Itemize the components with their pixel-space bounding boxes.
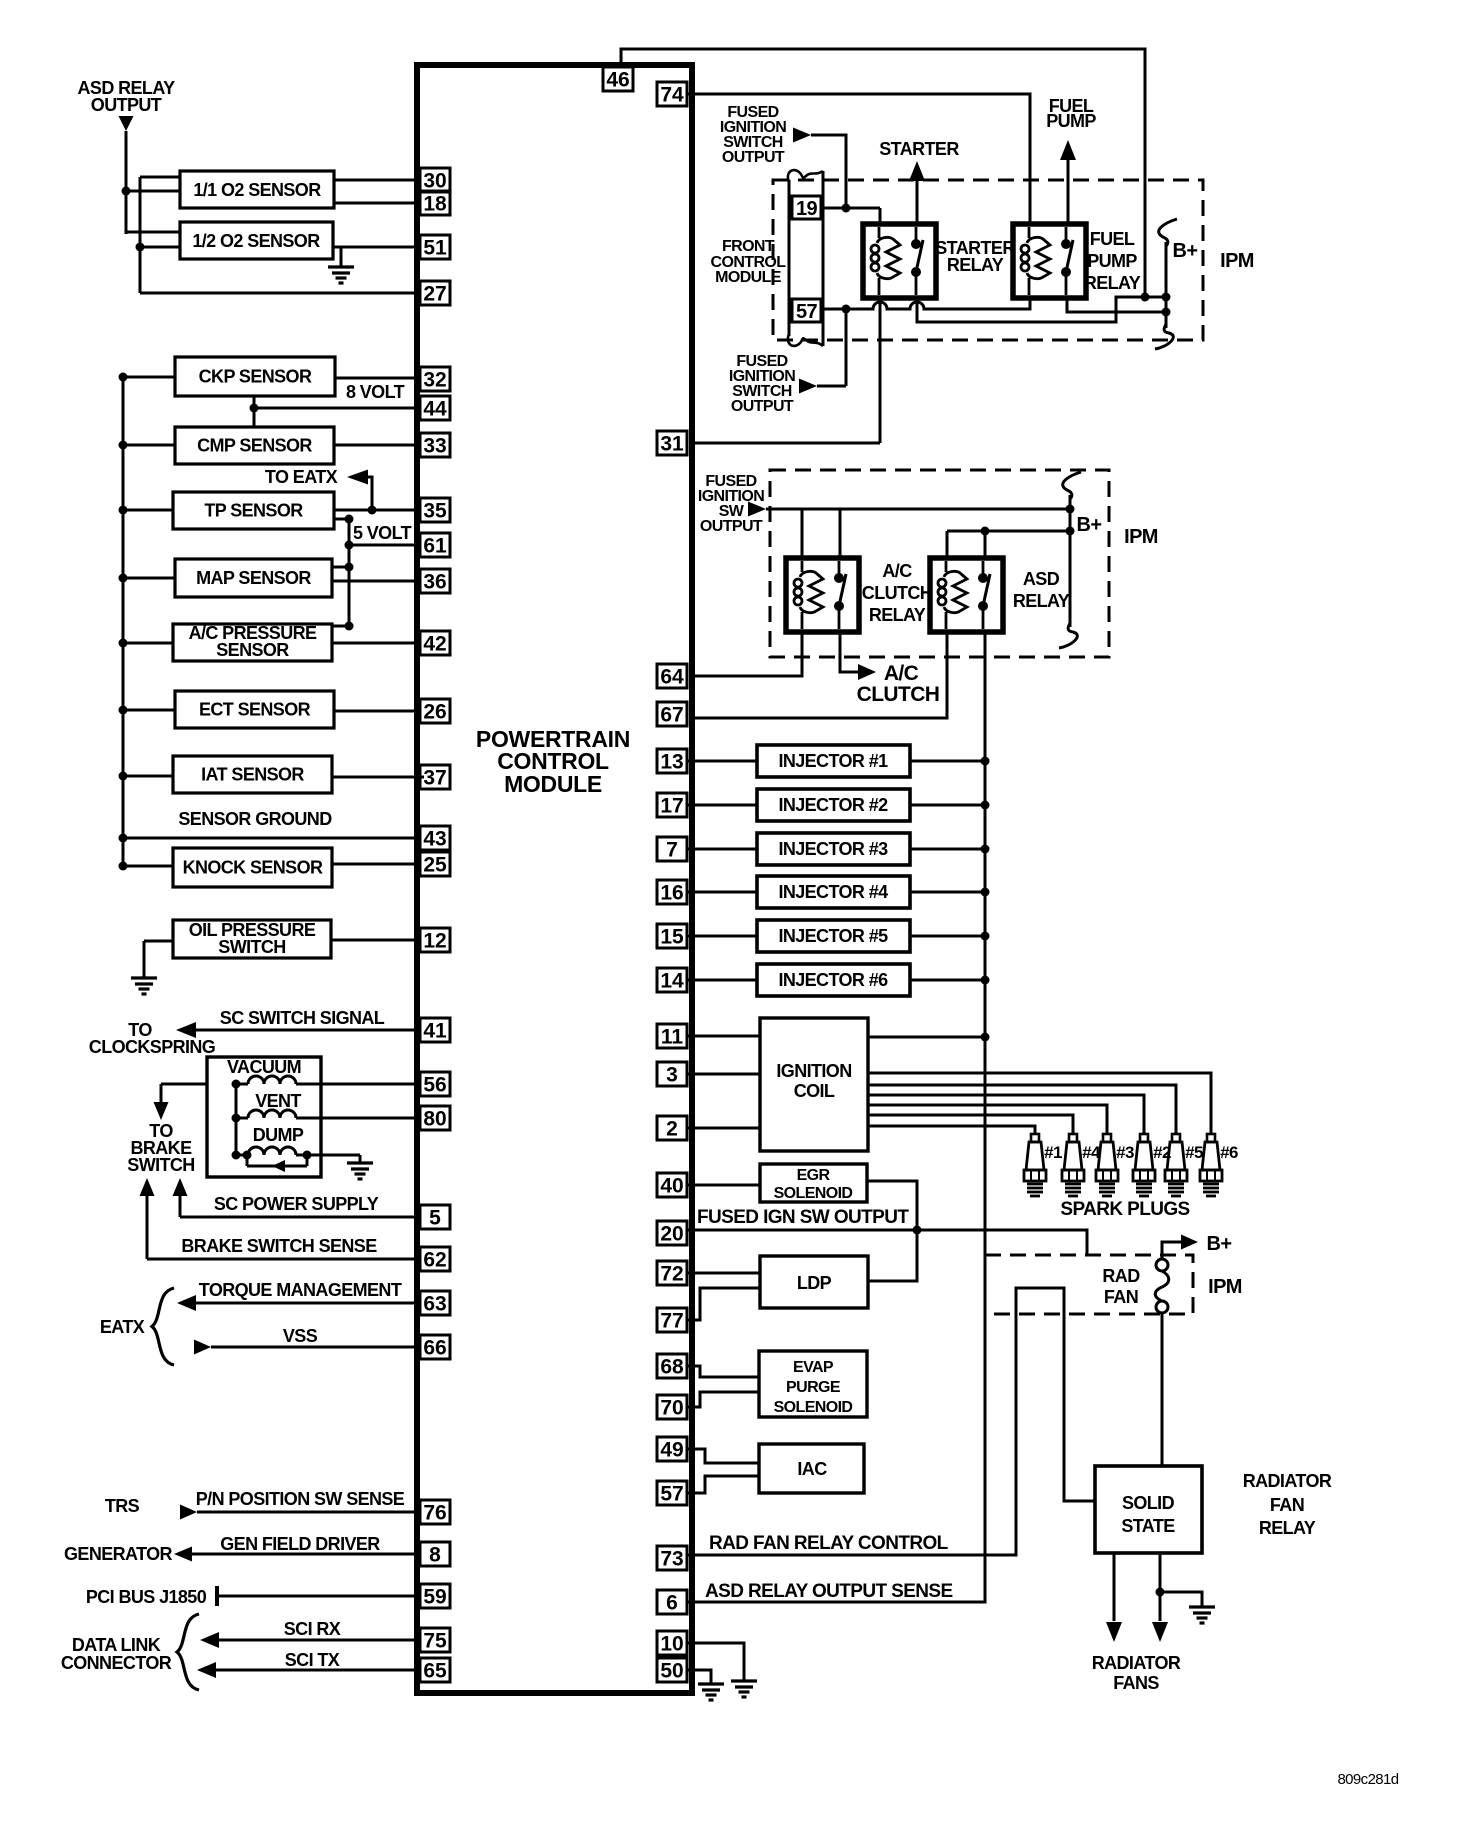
svg-text:MAP SENSOR: MAP SENSOR [196,568,311,588]
svg-text:75: 75 [423,1630,447,1653]
svg-text:SPARK PLUGS: SPARK PLUGS [1060,1199,1189,1220]
svg-text:68: 68 [660,1356,684,1379]
svg-text:STATE: STATE [1121,1516,1175,1536]
svg-text:5: 5 [429,1207,441,1230]
svg-text:13: 13 [660,751,683,774]
svg-text:15: 15 [660,926,684,949]
svg-text:31: 31 [660,433,684,456]
svg-text:KNOCK SENSOR: KNOCK SENSOR [183,858,323,878]
svg-text:TP SENSOR: TP SENSOR [204,501,303,521]
svg-text:CMP SENSOR: CMP SENSOR [197,436,312,456]
svg-text:A/C: A/C [884,662,919,685]
svg-text:32: 32 [423,369,446,392]
svg-text:17: 17 [660,795,683,818]
svg-text:1/2 O2 SENSOR: 1/2 O2 SENSOR [192,231,320,251]
svg-text:70: 70 [660,1397,683,1420]
svg-text:MODULE: MODULE [715,269,782,286]
svg-text:COIL: COIL [794,1081,835,1101]
svg-text:27: 27 [423,283,446,306]
svg-text:74: 74 [660,84,684,107]
svg-text:PUMP: PUMP [1087,251,1137,271]
svg-text:76: 76 [423,1502,446,1525]
svg-text:INJECTOR #2: INJECTOR #2 [778,795,888,815]
svg-text:RELAY: RELAY [1259,1518,1316,1538]
svg-text:SWITCH: SWITCH [127,1155,194,1175]
svg-text:37: 37 [423,767,446,790]
svg-text:FUEL: FUEL [1090,229,1135,249]
svg-text:SOLENOID: SOLENOID [774,1185,853,1202]
svg-text:ASD RELAY OUTPUT SENSE: ASD RELAY OUTPUT SENSE [705,1581,953,1602]
svg-text:B+: B+ [1077,514,1102,536]
svg-text:INJECTOR #1: INJECTOR #1 [778,751,888,771]
svg-text:57: 57 [796,301,818,323]
svg-text:RELAY: RELAY [1013,591,1070,611]
svg-text:OUTPUT: OUTPUT [731,398,794,415]
svg-text:CONNECTOR: CONNECTOR [61,1653,172,1673]
svg-text:33: 33 [423,435,446,458]
svg-text:36: 36 [423,571,446,594]
svg-text:RELAY: RELAY [1084,273,1141,293]
svg-text:EGR: EGR [797,1167,831,1184]
svg-text:46: 46 [606,69,629,92]
svg-text:IPM: IPM [1208,1276,1242,1298]
svg-text:SENSOR: SENSOR [216,640,289,660]
svg-text:MODULE: MODULE [504,771,602,797]
svg-text:IPM: IPM [1220,250,1254,272]
svg-text:3: 3 [666,1064,678,1087]
svg-text:OUTPUT: OUTPUT [700,518,763,535]
svg-text:INJECTOR #4: INJECTOR #4 [778,882,888,902]
svg-text:CLUTCH: CLUTCH [857,683,940,706]
svg-text:SCI RX: SCI RX [284,1619,341,1639]
svg-text:61: 61 [423,535,447,558]
svg-text:#6: #6 [1220,1143,1238,1162]
svg-text:49: 49 [660,1439,683,1462]
svg-text:5 VOLT: 5 VOLT [353,523,412,543]
svg-text:IPM: IPM [1124,526,1158,548]
svg-text:EATX: EATX [100,1317,145,1337]
svg-text:1/1 O2 SENSOR: 1/1 O2 SENSOR [193,180,321,200]
svg-text:CLOCKSPRING: CLOCKSPRING [89,1037,215,1057]
svg-text:14: 14 [660,970,684,993]
svg-text:B+: B+ [1173,240,1198,262]
svg-text:66: 66 [423,1337,446,1360]
svg-text:TRS: TRS [105,1496,140,1516]
svg-text:67: 67 [660,704,683,727]
svg-text:42: 42 [423,633,446,656]
svg-text:B+: B+ [1207,1233,1232,1255]
svg-text:51: 51 [423,237,447,260]
svg-text:64: 64 [660,666,684,689]
svg-text:ECT SENSOR: ECT SENSOR [199,700,311,720]
svg-text:RAD FAN RELAY CONTROL: RAD FAN RELAY CONTROL [709,1533,949,1554]
svg-text:43: 43 [423,828,446,851]
svg-text:PUMP: PUMP [1046,111,1096,131]
svg-text:40: 40 [660,1175,683,1198]
svg-text:77: 77 [660,1310,683,1333]
svg-text:65: 65 [423,1660,447,1683]
svg-text:6: 6 [666,1592,678,1615]
svg-text:SC SWITCH SIGNAL: SC SWITCH SIGNAL [220,1008,385,1028]
svg-text:SCI TX: SCI TX [285,1650,340,1670]
svg-text:PCI BUS J1850: PCI BUS J1850 [86,1587,207,1607]
svg-text:12: 12 [423,930,446,953]
svg-text:RELAY: RELAY [947,255,1004,275]
svg-text:INJECTOR #5: INJECTOR #5 [778,926,888,946]
svg-text:ASD: ASD [1023,569,1060,589]
svg-text:SENSOR GROUND: SENSOR GROUND [178,809,332,829]
svg-text:10: 10 [660,1633,683,1656]
svg-text:VACUUM: VACUUM [227,1057,301,1077]
svg-text:TO EATX: TO EATX [265,467,338,487]
svg-text:IGNITION: IGNITION [776,1061,851,1081]
svg-text:FANS: FANS [1113,1673,1159,1693]
svg-text:18: 18 [423,193,447,216]
svg-text:GENERATOR: GENERATOR [64,1544,173,1564]
svg-text:20: 20 [660,1223,683,1246]
svg-text:SC POWER SUPPLY: SC POWER SUPPLY [214,1194,379,1214]
svg-text:EVAP: EVAP [793,1359,834,1376]
svg-text:RADIATOR: RADIATOR [1092,1653,1181,1673]
svg-text:P/N POSITION SW SENSE: P/N POSITION SW SENSE [196,1489,405,1509]
svg-text:35: 35 [423,500,447,523]
svg-text:FAN: FAN [1270,1495,1304,1515]
svg-text:RAD: RAD [1102,1266,1140,1286]
svg-text:FRONT: FRONT [722,238,775,255]
svg-text:#1: #1 [1044,1143,1062,1162]
svg-text:SOLENOID: SOLENOID [774,1399,853,1416]
svg-text:44: 44 [423,398,447,421]
svg-text:BRAKE SWITCH SENSE: BRAKE SWITCH SENSE [181,1236,377,1256]
svg-text:STARTER: STARTER [879,139,959,159]
svg-text:72: 72 [660,1263,683,1286]
svg-text:11: 11 [661,1026,684,1049]
svg-text:FUSED IGN SW OUTPUT: FUSED IGN SW OUTPUT [697,1207,909,1228]
svg-text:41: 41 [423,1020,447,1043]
svg-text:LDP: LDP [797,1273,832,1293]
svg-text:25: 25 [423,854,447,877]
svg-text:8: 8 [429,1544,441,1567]
svg-text:DUMP: DUMP [253,1125,304,1145]
svg-text:7: 7 [666,839,678,862]
svg-text:VENT: VENT [255,1091,301,1111]
svg-text:50: 50 [660,1660,683,1683]
svg-text:SWITCH: SWITCH [218,937,285,957]
svg-text:62: 62 [423,1249,446,1272]
svg-text:63: 63 [423,1293,446,1316]
svg-text:57: 57 [660,1483,683,1506]
svg-text:OUTPUT: OUTPUT [722,149,785,166]
svg-text:59: 59 [423,1586,446,1609]
svg-text:SOLID: SOLID [1122,1493,1175,1513]
svg-text:809c281d: 809c281d [1337,1771,1398,1788]
svg-text:VSS: VSS [283,1326,318,1346]
svg-text:GEN FIELD DRIVER: GEN FIELD DRIVER [220,1534,380,1554]
svg-text:RELAY: RELAY [869,605,926,625]
svg-text:2: 2 [666,1118,678,1141]
svg-text:26: 26 [423,701,446,724]
svg-text:FAN: FAN [1104,1287,1138,1307]
svg-text:#4: #4 [1082,1143,1101,1162]
svg-text:56: 56 [423,1074,446,1097]
svg-text:INJECTOR #6: INJECTOR #6 [778,970,888,990]
svg-text:TORQUE MANAGEMENT: TORQUE MANAGEMENT [199,1280,402,1300]
svg-text:19: 19 [796,198,818,220]
svg-text:OUTPUT: OUTPUT [91,95,162,115]
svg-text:#2: #2 [1153,1143,1171,1162]
svg-text:#5: #5 [1185,1143,1203,1162]
svg-text:INJECTOR #3: INJECTOR #3 [778,839,888,859]
svg-text:8 VOLT: 8 VOLT [346,382,405,402]
svg-text:30: 30 [423,170,446,193]
svg-text:IAT SENSOR: IAT SENSOR [201,765,304,785]
svg-text:RADIATOR: RADIATOR [1243,1471,1332,1491]
svg-text:A/C: A/C [882,561,912,581]
svg-text:CKP SENSOR: CKP SENSOR [199,367,312,387]
svg-text:73: 73 [660,1548,683,1571]
svg-text:PURGE: PURGE [786,1379,841,1396]
svg-text:CLUTCH: CLUTCH [862,583,932,603]
svg-text:DATA LINK: DATA LINK [72,1635,161,1655]
svg-text:16: 16 [660,882,683,905]
svg-text:IAC: IAC [797,1459,827,1479]
svg-text:#3: #3 [1116,1143,1134,1162]
svg-text:80: 80 [423,1108,446,1131]
